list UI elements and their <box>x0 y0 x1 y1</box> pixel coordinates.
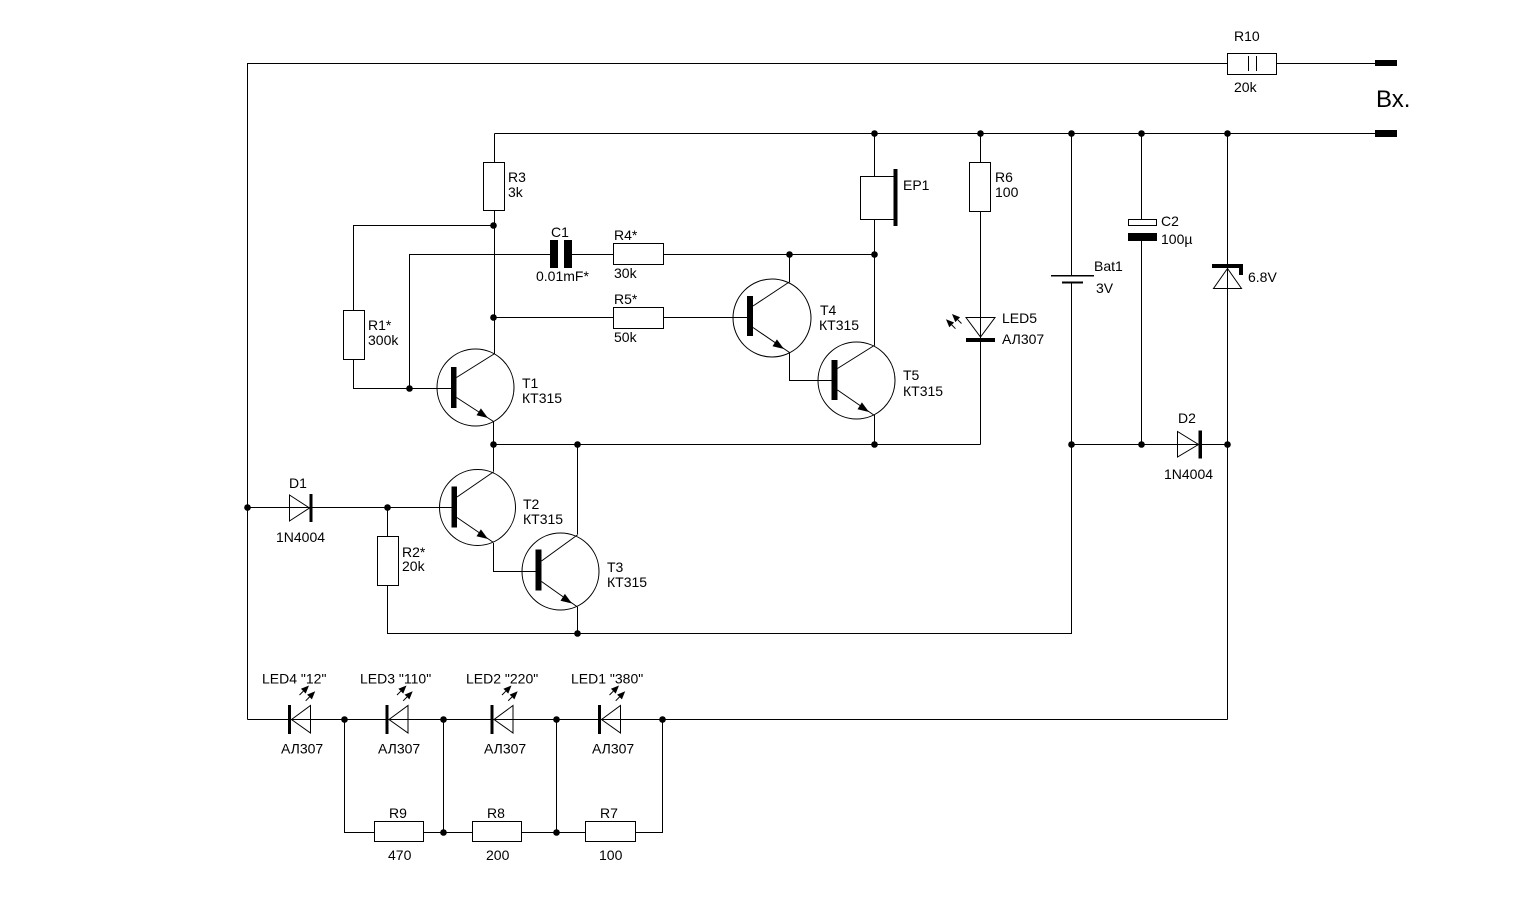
capacitor C1 <box>550 240 572 268</box>
node rail133 EP1 <box>871 130 878 137</box>
svg-text:30k: 30k <box>614 265 638 281</box>
node R9/R8 <box>440 829 447 836</box>
svg-text:R4*: R4* <box>614 227 638 243</box>
svg-text:R10: R10 <box>1234 28 1260 44</box>
node bottom bus T3 emitter <box>574 630 581 637</box>
wire: LED5 / R6 vertical <box>980 134 982 445</box>
svg-text:R5*: R5* <box>614 291 638 307</box>
wire: R4 right lead to EP1 bottom node <box>664 254 875 256</box>
wire: LED4 junction down to R9 left <box>345 720 375 833</box>
svg-text:АЛ307: АЛ307 <box>1002 331 1044 347</box>
svg-text:АЛ307: АЛ307 <box>484 741 526 757</box>
node rail444 T1/T2 <box>490 441 497 448</box>
svg-text:3k: 3k <box>508 184 524 200</box>
svg-text:T2: T2 <box>523 496 540 512</box>
svg-text:LED2 "220": LED2 "220" <box>466 671 538 687</box>
wire: LED bus y=719 <box>248 719 1228 721</box>
svg-text:T4: T4 <box>820 302 837 318</box>
resistor R7 <box>586 822 636 842</box>
wire: R8 right lead to R7 left <box>522 832 585 834</box>
svg-text:6.8V: 6.8V <box>1248 269 1277 285</box>
node EP1 bottom / T5 collector <box>871 251 878 258</box>
resistor R3 <box>484 163 505 211</box>
resistor R1* <box>344 311 365 360</box>
svg-text:1N4004: 1N4004 <box>1164 466 1213 482</box>
transistor T4 <box>733 279 811 357</box>
svg-text:C1: C1 <box>551 224 569 240</box>
node R3/R1 <box>490 222 497 229</box>
node left border / D1 <box>244 504 251 511</box>
wire: T3 emitter down to bottom bus <box>577 607 579 634</box>
wire: rail y=444 from T1/T2 node to LED5 bottom corner <box>494 444 981 446</box>
wire: R2 top lead <box>387 508 389 537</box>
wire: C1 left lead up-over to T1 base node <box>410 255 551 389</box>
wire: second input rail y=133 <box>495 133 1376 135</box>
wire: T1 base lead <box>410 388 452 390</box>
transistor T2 <box>440 470 516 546</box>
wire: T1 emitter down to rail y=444 <box>493 422 495 445</box>
wire: R5 right lead to T4 base <box>664 317 747 319</box>
svg-text:470: 470 <box>388 847 412 863</box>
svg-text:100µ: 100µ <box>1161 231 1192 247</box>
svg-text:Bat1: Bat1 <box>1094 258 1123 274</box>
svg-text:50k: 50k <box>614 329 638 345</box>
wire: R3 bottom vertical down to T1 collector <box>494 211 496 354</box>
node LED bus LED1 <box>659 716 666 723</box>
node rail133 zener <box>1224 130 1231 137</box>
svg-text:LED1 "380": LED1 "380" <box>571 671 643 687</box>
node D1 / R2 <box>384 504 391 511</box>
wire: C2 bottom lead <box>1141 241 1143 445</box>
svg-text:КТ315: КТ315 <box>607 574 647 590</box>
transistor T1 <box>437 349 514 426</box>
svg-text:D1: D1 <box>289 475 307 491</box>
wire: R1 bottom lead to T1 base node <box>354 359 410 389</box>
node Bat1 bottom <box>1068 441 1075 448</box>
wire: EP1 bottom lead <box>874 220 876 255</box>
capacitor C2 <box>1128 220 1157 242</box>
wire: left border through D1 to T2 base <box>248 507 452 509</box>
battery Bat1 <box>1051 276 1094 283</box>
node rail444 T5 <box>871 441 878 448</box>
transistor T5 <box>818 342 895 419</box>
resistor R5* <box>614 308 664 329</box>
svg-text:LED5: LED5 <box>1002 310 1037 326</box>
wire: T5 emitter down to rail y=444 <box>874 415 876 445</box>
svg-text:R9: R9 <box>389 805 407 821</box>
svg-text:Вх.: Вх. <box>1376 86 1410 113</box>
wire: Bat1 top lead <box>1071 134 1073 276</box>
LED5 <box>946 314 995 342</box>
wire: D2 node wire from Bat1 column to zener column <box>1072 444 1228 446</box>
svg-text:T3: T3 <box>607 559 624 575</box>
resistor R2* <box>378 537 399 586</box>
transistor T3 <box>522 533 599 610</box>
svg-text:LED3 "110": LED3 "110" <box>360 671 431 687</box>
svg-text:0.01mF*: 0.01mF* <box>536 268 589 284</box>
svg-text:C2: C2 <box>1161 213 1179 229</box>
node rail133 R6 <box>977 130 984 137</box>
wire: T2 emitter to T3 base <box>494 543 537 572</box>
svg-text:EP1: EP1 <box>903 177 930 193</box>
svg-text:1N4004: 1N4004 <box>276 529 325 545</box>
svg-text:20k: 20k <box>402 558 426 574</box>
wire: zener column x=1227 from rail down to LED bus corner <box>1227 134 1229 720</box>
node rail444 T3 <box>574 441 581 448</box>
wire: LED2 junction down to R8/R7 node <box>556 720 558 833</box>
wire: T2 collector up to rail <box>493 445 495 472</box>
svg-text:200: 200 <box>486 847 510 863</box>
resistor R4* <box>614 244 664 265</box>
svg-text:T1: T1 <box>522 375 539 391</box>
wire: T3 collector up to rail <box>577 445 579 535</box>
LED1 <box>598 686 625 735</box>
node LED bus LED3 <box>440 716 447 723</box>
svg-text:3V: 3V <box>1096 280 1114 296</box>
svg-text:R3: R3 <box>508 169 526 185</box>
wire: T4 emitter to T5 base <box>790 352 833 381</box>
wire: top border rail from R10 left, down left side <box>248 64 1228 720</box>
svg-text:T5: T5 <box>903 367 920 383</box>
svg-text:КТ315: КТ315 <box>523 511 563 527</box>
LED3 <box>386 686 413 735</box>
svg-text:КТ315: КТ315 <box>819 317 859 333</box>
svg-text:300k: 300k <box>368 332 399 348</box>
resistor R9 <box>375 822 424 842</box>
buzzer EP1 <box>861 169 898 226</box>
resistor R8 <box>473 822 522 842</box>
wire: LED1 junction down to R7 right <box>636 720 663 833</box>
node LED bus LED4 <box>341 716 348 723</box>
node T1 base <box>406 385 413 392</box>
wire: R9 right lead to R8 left <box>424 832 472 834</box>
node T1 collector / R5 <box>490 314 497 321</box>
input terminal upper <box>1375 60 1397 66</box>
wire: R10 right lead to input terminal <box>1277 63 1375 65</box>
svg-text:20k: 20k <box>1234 79 1258 95</box>
svg-text:АЛ307: АЛ307 <box>592 741 634 757</box>
svg-text:D2: D2 <box>1178 410 1196 426</box>
wire: R1 top lead to node at R3 bottom <box>354 226 495 311</box>
svg-text:АЛ307: АЛ307 <box>378 741 420 757</box>
svg-text:LED4 "12": LED4 "12" <box>262 671 326 687</box>
node LED bus LED2 <box>553 716 560 723</box>
wire: LED3 junction down to R9/R8 node <box>443 720 445 833</box>
diode D1 <box>290 494 313 522</box>
svg-text:КТ315: КТ315 <box>903 383 943 399</box>
resistor R10 <box>1228 54 1277 75</box>
wire: T5 collector up to EP1 bottom node <box>874 255 876 346</box>
node T4 collector / R4 <box>786 251 793 258</box>
svg-text:100: 100 <box>599 847 623 863</box>
wire: T4 collector up to node y=254 <box>789 255 791 283</box>
wire: C1 right lead to R4 <box>572 254 613 256</box>
LED2 <box>491 686 518 735</box>
resistor R6 <box>970 163 991 212</box>
LED4 <box>288 686 315 735</box>
svg-text:R6: R6 <box>995 169 1013 185</box>
svg-text:АЛ307: АЛ307 <box>281 741 323 757</box>
svg-text:100: 100 <box>995 184 1019 200</box>
wire: EP1 top lead from rail <box>874 134 876 177</box>
node R8/R7 <box>553 829 560 836</box>
diode D2 <box>1178 431 1203 459</box>
svg-text:R7: R7 <box>600 805 618 821</box>
wire: R3 top lead <box>494 134 496 163</box>
zener diode 6.8V <box>1212 264 1243 289</box>
node rail133 C2 <box>1138 130 1145 137</box>
svg-text:R8: R8 <box>487 805 505 821</box>
svg-text:КТ315: КТ315 <box>522 390 562 406</box>
node C2 bottom / D2 <box>1138 441 1145 448</box>
node rail133 Bat1 <box>1068 130 1075 137</box>
node zener bottom / D2 <box>1224 441 1231 448</box>
wire: C2 top lead <box>1141 134 1143 220</box>
input terminal lower <box>1375 130 1397 137</box>
wire: Bat1 bottom lead <box>1071 283 1073 445</box>
wire: R2 bottom bus to Bat1 minus column <box>388 445 1072 634</box>
svg-text:R1*: R1* <box>368 317 392 333</box>
wire: R5 left lead from T1 collector node <box>494 317 614 319</box>
